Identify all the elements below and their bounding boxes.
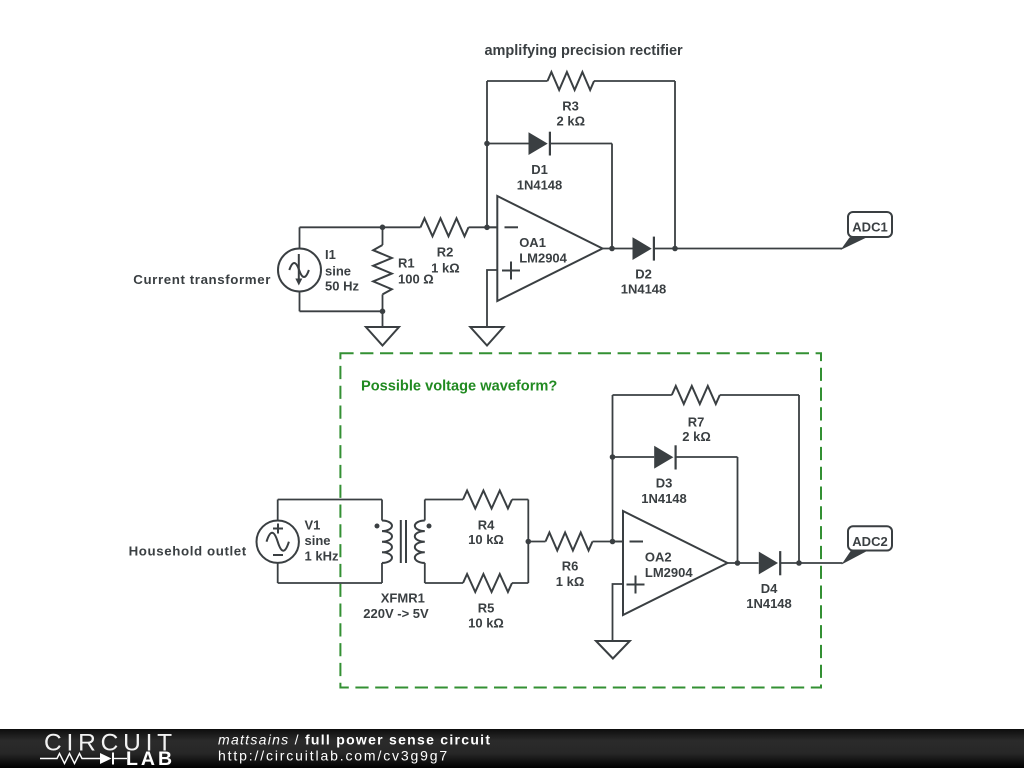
svg-text:V1: V1 (305, 518, 321, 533)
svg-text:http://circuitlab.com/cv3g9g7: http://circuitlab.com/cv3g9g7 (218, 748, 449, 764)
wire R7 right vertical (798, 395, 800, 563)
wire D1 down to output (611, 144, 613, 249)
wire R3 right vertical (674, 81, 676, 249)
diode D3 (613, 445, 738, 469)
diode D4 (759, 551, 843, 575)
svg-text:1N4148: 1N4148 (641, 491, 687, 506)
svg-text:D3: D3 (656, 476, 673, 491)
diode D2 (633, 237, 843, 261)
label R7 2 kΩ (682, 415, 711, 445)
svg-text:sine: sine (305, 533, 331, 548)
svg-text:XFMR1: XFMR1 (381, 591, 425, 606)
svg-text:R5: R5 (478, 601, 495, 616)
svg-text:LM2904: LM2904 (519, 251, 567, 266)
node OA2 inverting input (610, 539, 616, 545)
wire feedback vertical left (486, 81, 488, 227)
label OA1 LM2904 (519, 235, 567, 266)
wire feedback vertical OA2 (612, 395, 614, 542)
wire OA2 output (728, 562, 759, 564)
ground under OA1 (470, 327, 503, 346)
label R4 10 kΩ (468, 517, 504, 547)
svg-text:R6: R6 (562, 559, 579, 574)
current source I1 (278, 249, 321, 292)
svg-text:LAB: LAB (126, 748, 175, 768)
label R1 100 Ω (398, 255, 434, 286)
diode D1 (487, 132, 612, 156)
resistor R4 (425, 491, 529, 509)
label XFMR1 220V -> 5V (363, 591, 429, 621)
wire bottom net I1 to R1 (300, 310, 383, 312)
wire V1 bottom stub (277, 563, 279, 583)
svg-text:10 kΩ: 10 kΩ (468, 532, 504, 547)
svg-text:Current transformer: Current transformer (133, 272, 271, 287)
net flag ADC1 (841, 212, 893, 250)
svg-text:I1: I1 (325, 247, 336, 262)
svg-text:1N4148: 1N4148 (517, 177, 563, 192)
label I1 sine 50 Hz (325, 247, 359, 293)
dashed annotation box (340, 353, 821, 687)
transformer XFMR1 (375, 500, 432, 584)
voltage source V1 (257, 521, 299, 563)
svg-text:1 kΩ: 1 kΩ (431, 260, 460, 275)
op-amp OA2 (623, 511, 728, 615)
svg-text:Possible voltage waveform?: Possible voltage waveform? (361, 379, 557, 395)
node R1 top (380, 225, 386, 231)
wire V1 top stub (277, 500, 279, 521)
svg-text:220V -> 5V: 220V -> 5V (363, 606, 429, 621)
label R3 2 kΩ (557, 99, 586, 129)
wire OA2 minus stub (613, 541, 624, 543)
label D2 1N4148 (621, 267, 667, 297)
wire OA2 plus stub (613, 584, 624, 641)
svg-text:100 Ω: 100 Ω (398, 272, 434, 287)
svg-text:LM2904: LM2904 (645, 565, 693, 580)
logo resistor-diode symbol (40, 753, 127, 765)
ground under OA2 (596, 641, 630, 659)
svg-text:D4: D4 (761, 581, 778, 596)
wire V1 to primary bottom (278, 582, 382, 584)
wire I1 bottom stub (299, 292, 301, 312)
svg-text:1 kHz: 1 kHz (305, 549, 339, 564)
wire V1 to primary top (278, 499, 382, 501)
wire divider right vertical (527, 500, 529, 584)
svg-text:R3: R3 (562, 99, 579, 114)
svg-text:amplifying precision rectifier: amplifying precision rectifier (484, 43, 683, 59)
svg-text:50 Hz: 50 Hz (325, 279, 359, 294)
wire OA1 minus stub (487, 226, 497, 228)
svg-text:10 kΩ: 10 kΩ (468, 616, 504, 631)
svg-text:sine: sine (325, 263, 351, 278)
resistor R3 (487, 72, 675, 90)
svg-text:mattsains / full power sense c: mattsains / full power sense circuit (218, 732, 491, 748)
net flag ADC2 (842, 526, 893, 564)
resistor R7 (613, 386, 800, 404)
op-amp OA1 (497, 196, 602, 301)
svg-text:1N4148: 1N4148 (746, 596, 792, 611)
node D3 tap (610, 454, 616, 460)
node divider mid (526, 539, 532, 545)
node op-amp inverting input (484, 225, 490, 231)
node D3 output junction (735, 560, 741, 566)
wire output net (603, 248, 634, 250)
svg-text:OA1: OA1 (519, 235, 546, 250)
wire I1 top stub (299, 227, 301, 248)
ground under R1 (366, 311, 399, 345)
node output junction (609, 246, 615, 252)
node R1 bottom (380, 309, 386, 315)
svg-text:R2: R2 (437, 245, 454, 260)
svg-text:R7: R7 (688, 415, 705, 430)
svg-text:ADC1: ADC1 (852, 220, 887, 235)
svg-text:1 kΩ: 1 kΩ (556, 574, 585, 589)
label D3 1N4148 (641, 476, 687, 506)
svg-text:ADC2: ADC2 (852, 534, 887, 549)
resistor R2 (421, 218, 498, 236)
resistor R6 (528, 533, 623, 551)
svg-text:OA2: OA2 (645, 550, 672, 565)
wire OA1 plus stub (487, 270, 497, 327)
resistor R1 (373, 227, 392, 311)
label OA2 LM2904 (645, 550, 693, 581)
svg-text:2 kΩ: 2 kΩ (557, 114, 586, 129)
wire top net I1 to R2 (300, 226, 421, 228)
label D1 1N4148 (517, 162, 563, 192)
label R6 1 kΩ (556, 559, 585, 590)
node R3 output junction (672, 246, 678, 252)
svg-text:D2: D2 (635, 267, 652, 282)
svg-text:R1: R1 (398, 255, 415, 270)
resistor R5 (425, 574, 529, 592)
label D4 1N4148 (746, 581, 792, 611)
wire D3 down to output (737, 457, 739, 563)
svg-text:2 kΩ: 2 kΩ (682, 429, 711, 444)
svg-text:Household outlet: Household outlet (129, 544, 247, 559)
svg-text:D1: D1 (531, 162, 548, 177)
svg-text:1N4148: 1N4148 (621, 282, 667, 297)
label R5 10 kΩ (468, 601, 504, 631)
label R2 1 kΩ (431, 245, 460, 276)
svg-text:R4: R4 (478, 517, 495, 532)
label V1 sine 1 kHz (305, 518, 339, 564)
node D1 tap (484, 141, 490, 147)
node R7 output junction (796, 560, 802, 566)
